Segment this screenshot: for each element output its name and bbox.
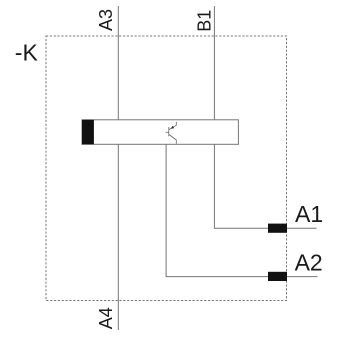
wire coil to A2 terminal: [166, 144, 317, 276]
wire B1 top: [213, 6, 215, 120]
transistor Q1: [166, 122, 177, 144]
transistor Q1 emitter arrow: [171, 126, 175, 129]
transistor Q1 collector lead: [169, 135, 176, 144]
svg-text:-K: -K: [15, 40, 39, 66]
svg-text:A2: A2: [295, 249, 323, 275]
wire A4 bottom: [117, 144, 119, 330]
svg-text:A3: A3: [96, 9, 116, 31]
coil black end cap: [82, 120, 94, 145]
transistor Q1 base lead: [166, 131, 169, 133]
svg-text:A4: A4: [96, 307, 116, 329]
terminal A2: [268, 272, 287, 281]
coil box U1: [82, 120, 238, 145]
terminal A1: [268, 224, 287, 233]
relay K boundary (dashed enclosure): [46, 36, 287, 301]
svg-text:B1: B1: [195, 10, 215, 32]
wire B1 to A1 terminal: [214, 144, 316, 228]
transistor Q1 emitter lead: [169, 122, 176, 130]
transistor Q1 base bar: [168, 127, 170, 136]
wire A3 top: [117, 6, 119, 120]
svg-text:A1: A1: [295, 201, 323, 227]
